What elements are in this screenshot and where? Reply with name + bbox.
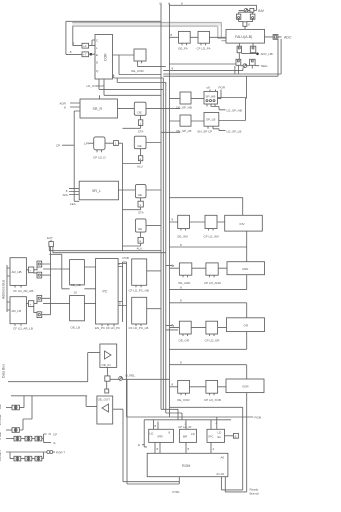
svg-text:SP_HB: SP_HB xyxy=(206,94,216,98)
svg-text:Branch: Branch xyxy=(250,492,260,496)
svg-text:ADL: ADL xyxy=(63,193,69,197)
buffer OE_AND xyxy=(179,263,191,277)
buffer OE_FA xyxy=(179,31,191,45)
wire INV row xyxy=(170,221,225,223)
svg-text:A0: A0 xyxy=(221,456,225,460)
register SR_R xyxy=(80,99,118,118)
buffer OE_COR xyxy=(134,49,166,67)
svg-text:AND: AND xyxy=(242,267,249,271)
gate B input box right xyxy=(250,12,255,21)
wire EXT vertical xyxy=(50,247,52,315)
wire probe row xyxy=(239,10,253,12)
register COR xyxy=(95,35,113,83)
svg-text:16: 16 xyxy=(74,291,78,295)
wire IR bottom pins xyxy=(155,442,211,453)
svg-text:E: E xyxy=(54,441,56,445)
oscillator XTAL chain xyxy=(6,434,51,442)
svg-text:E: E xyxy=(235,435,237,439)
svg-text:COR: COR xyxy=(104,53,108,61)
svg-text:CP LD_XOR: CP LD_XOR xyxy=(204,398,222,402)
register SP_LB xyxy=(204,113,219,129)
wire PC_HB to bus xyxy=(147,270,161,272)
buffer OE_LB xyxy=(70,296,85,321)
wire bus into IR area xyxy=(161,409,182,420)
register AR_LB xyxy=(10,297,26,326)
wire B chain vertical xyxy=(246,76,248,98)
wire D_REL row xyxy=(110,378,170,380)
buffer OE (SR_R stage B) xyxy=(134,136,146,149)
svg-text:LD_SP_HB: LD_SP_HB xyxy=(227,109,242,113)
buffer OE_OUT xyxy=(97,396,113,424)
wire SP_LB row xyxy=(170,120,246,123)
register ADC_HB left cell xyxy=(237,43,241,53)
wire COR out to OE_COR xyxy=(113,54,135,56)
bus M1 vertical xyxy=(162,80,164,409)
buffer OE_OR xyxy=(179,321,191,336)
svg-text:d1 d0: d1 d0 xyxy=(217,472,225,476)
svg-text:OE_SP_HB: OE_SP_HB xyxy=(176,106,192,110)
wire ADL stubs xyxy=(69,188,79,194)
connector 1 right of L/R xyxy=(105,141,123,146)
wire AND loop bottom xyxy=(170,275,247,290)
svg-text:CP LD_D: CP LD_D xyxy=(93,156,106,160)
mux AR_LB plus cell xyxy=(26,301,33,307)
svg-text:EXTAL: EXTAL xyxy=(0,414,2,425)
wire OR row xyxy=(170,327,227,329)
svg-text:POR ?: POR ? xyxy=(56,451,65,455)
connector ADC out xyxy=(265,35,282,40)
wire LD chain vertical xyxy=(122,143,124,251)
buffer OE (SR_L stage B) xyxy=(135,219,146,232)
svg-text:OE_SP_LB: OE_SP_LB xyxy=(176,129,191,133)
wire FA row xyxy=(170,36,227,38)
register CP LD_XOR xyxy=(206,380,218,395)
wire CP stub xyxy=(62,144,74,146)
wire POB horizontal xyxy=(127,416,254,418)
svg-text:AR_HB: AR_HB xyxy=(12,270,22,274)
wire control drop lines xyxy=(113,379,180,484)
wire CTRL out xyxy=(178,477,180,484)
highlighted accumulator bus (gray) xyxy=(72,23,226,41)
svg-text:ADC_HB: ADC_HB xyxy=(261,52,273,56)
wire cells to COR xyxy=(89,40,95,54)
bus M2 vertical xyxy=(165,83,167,414)
connector OE port xyxy=(6,396,24,410)
svg-text:IRR: IRR xyxy=(158,435,164,439)
wire POB feedback channel xyxy=(118,262,126,417)
svg-text:LD_COR CP: LD_COR CP xyxy=(87,84,104,88)
svg-text:OE: OE xyxy=(137,110,141,114)
mux COR input cell upper xyxy=(82,43,89,48)
svg-text:CP LD_AND: CP LD_AND xyxy=(204,281,222,285)
svg-text:ALU: ALU xyxy=(137,246,143,250)
wire Ready/Branch xyxy=(221,417,246,492)
svg-text:OE_LB: OE_LB xyxy=(71,325,81,329)
bus D vertical xyxy=(160,3,162,409)
svg-text:XOR: XOR xyxy=(242,384,249,388)
wire AND row loop top xyxy=(170,231,247,262)
svg-text:OE_OR: OE_OR xyxy=(179,338,190,342)
alu FALU(A-B) xyxy=(226,29,265,43)
wire IR enclosure xyxy=(144,420,231,447)
wire COR input taps from gray bus xyxy=(66,21,82,54)
svg-text:ROM: ROM xyxy=(182,464,190,468)
wire PC_LB to bus xyxy=(147,308,161,310)
svg-text:CF LD_FA: CF LD_FA xyxy=(197,47,211,51)
svg-text:OE_COR: OE_COR xyxy=(131,69,145,73)
wire IR top pins xyxy=(154,417,217,429)
connector 8 below OE B xyxy=(123,149,143,164)
buffer OE (SR_L stage A) xyxy=(135,185,146,198)
svg-text:INV: INV xyxy=(258,9,265,13)
svg-text:CTRL: CTRL xyxy=(172,490,180,494)
svg-text:ADC: ADC xyxy=(284,36,292,40)
wire AR to OE_HB xyxy=(43,269,70,304)
wire NEG row xyxy=(238,65,259,74)
svg-text:+7: +7 xyxy=(83,53,87,57)
svg-text:SR_R: SR_R xyxy=(93,107,103,111)
connector 8 below OE (SR_L A) xyxy=(123,198,144,210)
wire LD_COR to bus xyxy=(99,82,163,99)
svg-text:CF LD_PC_LB: CF LD_PC_LB xyxy=(129,326,149,330)
wire OE_HB/OE_LB to PC xyxy=(49,254,95,303)
svg-text:IPC: IPC xyxy=(209,435,215,439)
connector 8 below OE (SR_L B) xyxy=(123,232,144,246)
svg-text:FALU(A-B): FALU(A-B) xyxy=(235,35,252,39)
svg-text:OE_XOR: OE_XOR xyxy=(177,398,190,402)
svg-text:LEA: LEA xyxy=(70,202,76,206)
wire RESET row xyxy=(6,451,47,453)
label CP LD_IR xyxy=(178,421,192,428)
svg-text:AR_LB: AR_LB xyxy=(12,309,22,313)
svg-text:+: + xyxy=(30,302,32,306)
connector below OE_IN xyxy=(105,367,110,381)
delay chain RESET xyxy=(10,452,44,461)
mux AR_HB plus cell xyxy=(26,267,33,273)
svg-text:CP LD_INV: CP LD_INV xyxy=(204,234,219,238)
svg-text:EXT: EXT xyxy=(47,236,53,240)
wire OR loop bottom xyxy=(170,332,247,350)
wire ADC_HB row xyxy=(242,52,257,55)
svg-text:Data Bus: Data Bus xyxy=(2,364,6,378)
connector above OE_OUT xyxy=(105,381,109,393)
register NEG left cell xyxy=(236,53,241,66)
wire OE_COR to D bus xyxy=(119,55,161,75)
register IPC xyxy=(207,429,225,442)
svg-text:E: E xyxy=(138,443,140,447)
junction COR input xyxy=(90,53,93,56)
register BR xyxy=(179,429,196,442)
wire ADR stubs xyxy=(70,103,80,111)
wire COR control rows xyxy=(114,75,166,85)
svg-text:POR: POR xyxy=(219,86,226,90)
wire XOR row loop top xyxy=(170,365,247,379)
gate B input box left xyxy=(237,12,241,21)
gate OR xyxy=(227,318,265,332)
wire INV row feed xyxy=(170,198,243,216)
register CP LD_OR xyxy=(206,321,218,336)
switch INV input xyxy=(244,9,248,13)
svg-text:D_REL: D_REL xyxy=(126,374,136,378)
wire XOR row xyxy=(170,386,227,388)
wire OE out (SR_L B) xyxy=(146,225,161,227)
svg-text:SR_L: SR_L xyxy=(92,189,101,193)
wire XOR loop bottom xyxy=(170,393,247,488)
svg-text:u8: u8 xyxy=(207,86,211,90)
svg-text:OE: OE xyxy=(138,193,142,197)
flag AR_HB cell upper xyxy=(34,261,51,270)
svg-text:OE: OE xyxy=(138,227,142,231)
register SP_HB xyxy=(204,91,218,106)
svg-text:CP LD_IR: CP LD_IR xyxy=(178,425,192,429)
flag AR_LB cell lower xyxy=(34,307,51,318)
register NEG right cell xyxy=(250,59,256,65)
wire AND row xyxy=(170,267,228,269)
svg-text:POB: POB xyxy=(255,416,261,420)
svg-text:CP: CP xyxy=(53,433,57,437)
wire SP_HB row xyxy=(170,98,246,99)
svg-text:RESET: RESET xyxy=(0,450,2,461)
wire SR_R to OE and to SP row xyxy=(118,108,181,110)
wire LD_SP_LB xyxy=(213,129,226,131)
svg-text:CF LD_AR_HB: CF LD_AR_HB xyxy=(13,289,33,293)
svg-text:PC: PC xyxy=(103,290,108,294)
wire NEG taps to bus xyxy=(163,64,243,71)
adder node xyxy=(239,22,253,30)
wire FALU bottom return xyxy=(163,39,281,76)
buffer OE_SP_LB xyxy=(180,115,191,126)
memory ROM xyxy=(147,453,228,476)
svg-text:CF LD_AR_LB: CF LD_AR_LB xyxy=(13,326,33,330)
svg-text:EN_SP CP: EN_SP CP xyxy=(198,130,213,134)
wire bus ticks PC xyxy=(166,266,178,330)
svg-text:SP_LB: SP_LB xyxy=(206,118,215,122)
switch D_REL xyxy=(119,377,123,381)
mux COR input cell lower xyxy=(82,52,89,57)
buffer OE_HB xyxy=(70,260,85,288)
register CF LD_FA xyxy=(198,31,210,45)
wire top clock row xyxy=(11,395,87,397)
connector INV pin xyxy=(250,8,254,12)
wire address bus vertical xyxy=(7,265,10,312)
svg-text:POB: POB xyxy=(123,256,129,260)
wire D bus top feed xyxy=(66,20,161,22)
register ADC_HB right cell xyxy=(250,43,256,53)
bus A vertical xyxy=(169,3,171,417)
register CF LD_PC_HB xyxy=(132,259,147,287)
register PC xyxy=(96,259,119,327)
register SR_L xyxy=(79,181,118,200)
wire OE B out xyxy=(146,132,180,142)
wire data bus out xyxy=(86,396,97,407)
register AR_HB xyxy=(10,258,26,288)
svg-text:OE: OE xyxy=(137,144,141,148)
wire EXT rows xyxy=(49,247,166,253)
buffer OE_IN xyxy=(100,344,117,367)
svg-text:OE: OE xyxy=(0,403,2,409)
svg-text:STA: STA xyxy=(138,129,144,133)
wire SR_L to OE xyxy=(118,189,161,191)
wire POR stubs xyxy=(210,90,221,99)
svg-text:XTAL: XTAL xyxy=(0,432,2,440)
svg-text:OE_HB: OE_HB xyxy=(71,283,81,287)
wire A bus to INV switch xyxy=(170,5,257,10)
wire SP loop right xyxy=(245,98,247,121)
connector 8 below OE A xyxy=(123,115,143,128)
svg-text:E: E xyxy=(96,53,98,57)
connector E right of IPC xyxy=(225,433,239,438)
register CP LD_INV xyxy=(205,215,217,230)
gate AND xyxy=(227,262,265,275)
wire CP vertical xyxy=(74,111,79,201)
svg-text:OE_FA: OE_FA xyxy=(178,47,188,51)
svg-text:LD_SP_LB: LD_SP_LB xyxy=(227,130,242,134)
switch NEG xyxy=(243,64,247,68)
gate XOR xyxy=(226,379,264,393)
wire to INV label xyxy=(254,9,257,11)
register IRR xyxy=(149,429,174,442)
register L/R xyxy=(84,137,105,152)
buffer OE_INV xyxy=(178,215,190,230)
flag AR_HB cell lower xyxy=(34,272,51,278)
svg-text:+0: +0 xyxy=(83,44,87,48)
svg-text:NEG: NEG xyxy=(261,64,268,68)
connector EXTAL port xyxy=(6,396,32,433)
svg-text:EN_PC CF LD_PC: EN_PC CF LD_PC xyxy=(95,326,121,330)
svg-text:STA: STA xyxy=(138,210,144,214)
svg-text:INV: INV xyxy=(240,222,245,226)
wire OR row loop top xyxy=(170,303,247,318)
register CF LD_PC_LB xyxy=(132,297,147,326)
svg-text:OE_OUT: OE_OUT xyxy=(98,397,111,401)
svg-text:CF LD_PC_HB: CF LD_PC_HB xyxy=(129,288,149,292)
wire LD_SP_HB xyxy=(211,107,226,110)
svg-text:OE_INV: OE_INV xyxy=(177,234,188,238)
svg-text:ALU: ALU xyxy=(137,165,143,169)
register CP LD_AND xyxy=(206,263,218,277)
svg-text:P: P xyxy=(119,262,121,266)
svg-text:+: + xyxy=(30,269,32,273)
junction ADC_HB xyxy=(256,53,259,56)
svg-text:CP: CP xyxy=(56,144,60,148)
flag AR_LB cell upper xyxy=(34,295,51,303)
connector POR xyxy=(47,451,55,454)
buffer OE (SR_R stage A) xyxy=(134,102,146,115)
wire data bus in xyxy=(8,353,100,382)
register EXT xyxy=(47,236,53,246)
svg-text:CP LD_OR: CP LD_OR xyxy=(205,338,221,342)
buffer OE_SP_HB xyxy=(180,92,191,104)
gate INV xyxy=(225,215,263,231)
buffer OE_XOR xyxy=(178,380,190,395)
svg-text:OE_IN: OE_IN xyxy=(102,363,111,367)
svg-text:Address Bus: Address Bus xyxy=(2,279,6,299)
svg-text:En: En xyxy=(218,435,222,439)
